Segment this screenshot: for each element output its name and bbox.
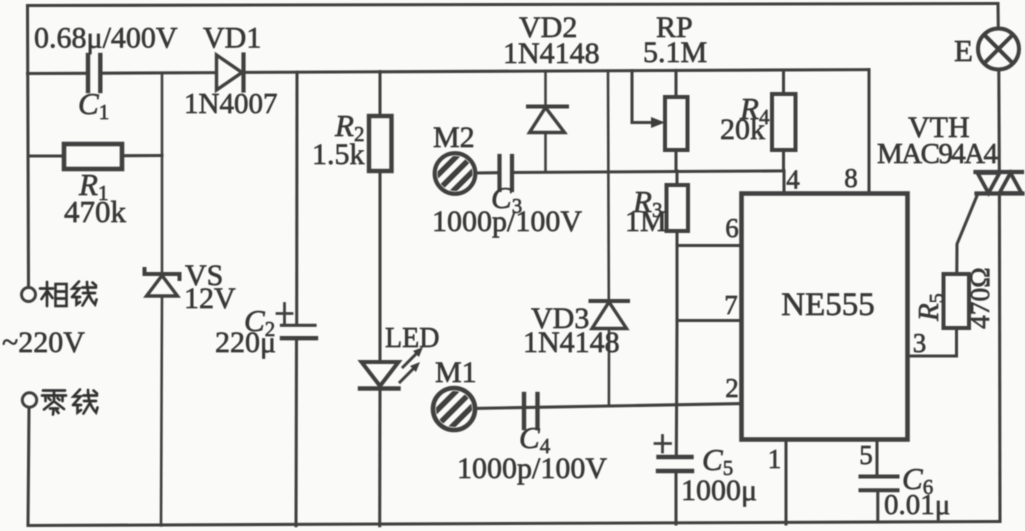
svg-text:M2: M2	[433, 121, 475, 154]
wire pin 1	[784, 439, 787, 524]
wire C2 to bottom	[294, 339, 298, 526]
svg-text:470k: 470k	[64, 194, 127, 229]
svg-text:5.1M: 5.1M	[643, 36, 707, 69]
wire RP bottom	[674, 150, 677, 171]
svg-text:MAC94A4: MAC94A4	[877, 138, 999, 170]
wire R2 to LED	[378, 171, 381, 362]
resistor R2	[369, 116, 392, 171]
svg-text:0.01μ: 0.01μ	[884, 489, 950, 521]
svg-text:220μ: 220μ	[215, 326, 276, 359]
resistor R5	[944, 274, 970, 328]
svg-text:~220V: ~220V	[2, 326, 85, 359]
wire C6 to bottom	[876, 490, 879, 522]
op-amp U1 NE555 box	[742, 194, 908, 440]
svg-text:3: 3	[913, 328, 927, 358]
label 相线	[40, 282, 97, 307]
svg-text:4: 4	[786, 165, 800, 195]
diode VD3	[591, 71, 629, 405]
wire RP top	[674, 70, 677, 97]
wire left vertical upper	[28, 6, 29, 288]
node neutral terminal 零线	[22, 393, 36, 407]
wire pin 4	[782, 171, 785, 193]
touch plate M1	[432, 387, 476, 431]
wire lamp top	[996, 4, 999, 30]
wire C2 plus sign	[277, 304, 292, 326]
wire pin 6	[677, 244, 742, 247]
svg-text:1N4148: 1N4148	[523, 326, 620, 359]
svg-text:NE555: NE555	[781, 287, 875, 323]
wire pin 2	[475, 404, 742, 409]
potentiometer RP	[665, 97, 688, 150]
wire top rail	[28, 4, 999, 6]
wire R4 bottom	[782, 150, 785, 171]
diode VD2	[528, 71, 567, 171]
wire triac to bottom	[998, 194, 1002, 522]
wire R3 to pins 6 7 2	[675, 231, 679, 457]
svg-text:VD1: VD1	[203, 22, 261, 55]
capacitor C3	[500, 156, 513, 190]
label 零线	[42, 390, 98, 415]
wire R1 left	[29, 154, 64, 157]
wire pin 5	[875, 439, 878, 477]
wire main top horizontal	[28, 70, 870, 74]
capacitor C5	[658, 457, 692, 471]
svg-text:8: 8	[844, 163, 858, 193]
diode VD1	[217, 55, 244, 91]
wire RP wiper	[632, 71, 652, 123]
svg-text:2: 2	[725, 373, 739, 403]
resistor R1	[64, 144, 122, 169]
LED D1	[360, 362, 399, 389]
wire pin 7	[677, 319, 742, 322]
svg-text:5: 5	[859, 440, 873, 470]
touch plate M2	[433, 152, 477, 196]
svg-text:0.68μ/400V: 0.68μ/400V	[34, 22, 178, 55]
wire C5 plus sign	[655, 436, 671, 453]
wire C5 to bottom	[674, 471, 677, 524]
svg-text:1M: 1M	[625, 205, 667, 238]
lamp E	[978, 29, 1019, 70]
wire triac gate	[957, 195, 978, 275]
wire LED to bottom	[378, 389, 381, 526]
wire R2 top	[378, 72, 381, 116]
svg-text:6: 6	[725, 213, 739, 243]
svg-text:1: 1	[768, 444, 782, 474]
capacitor C6	[861, 477, 898, 491]
triac VTH	[976, 172, 1023, 194]
svg-text:12V: 12V	[184, 282, 236, 315]
wire R3 top	[675, 171, 678, 185]
svg-text:1000p/100V: 1000p/100V	[432, 205, 582, 238]
wire left vertical lower	[28, 408, 29, 526]
wire pin 8	[867, 70, 870, 193]
resistor R3	[667, 185, 689, 231]
svg-text:1.5k: 1.5k	[312, 138, 365, 171]
svg-text:1000p/100V: 1000p/100V	[457, 452, 607, 485]
svg-text:LED: LED	[385, 323, 439, 354]
capacitor C2	[282, 325, 317, 338]
wire R1 right	[122, 154, 162, 157]
capacitor C4	[524, 394, 538, 428]
svg-text:1000μ: 1000μ	[681, 474, 757, 507]
wire C3 node	[475, 171, 784, 173]
svg-text:470Ω: 470Ω	[964, 267, 995, 329]
LED arrows	[400, 347, 423, 382]
svg-text:20k: 20k	[720, 113, 765, 146]
svg-text:M1: M1	[435, 356, 477, 389]
svg-text:E: E	[954, 33, 973, 68]
svg-text:1N4148: 1N4148	[503, 37, 600, 70]
node live terminal 相线	[22, 288, 36, 302]
wire VD1 junction down	[295, 72, 298, 325]
svg-text:7: 7	[724, 290, 738, 320]
svg-text:1N4007: 1N4007	[184, 88, 277, 120]
wire bottom rail	[28, 522, 1000, 526]
capacitor C1	[88, 55, 100, 91]
wire lamp to triac	[997, 70, 1001, 173]
wire R4 top	[782, 70, 785, 94]
resistor R4	[772, 94, 796, 150]
zener VS	[145, 73, 180, 526]
wire pin3 to R5	[908, 328, 957, 356]
